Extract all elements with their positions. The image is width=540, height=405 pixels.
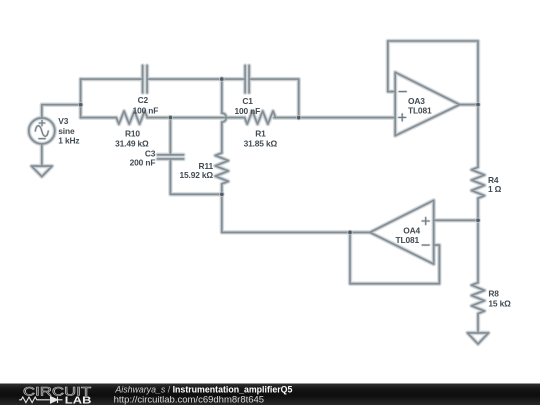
svg-text:R8: R8: [488, 289, 499, 299]
svg-text:R10: R10: [125, 128, 140, 138]
svg-text:C2: C2: [138, 95, 149, 105]
node dot V3 branch: [78, 102, 83, 107]
svg-text:TL081: TL081: [396, 235, 420, 245]
node dot R1/C1/OA3+: [296, 115, 301, 120]
svg-text:C1: C1: [242, 96, 253, 106]
label V3 value: [58, 116, 79, 146]
svg-text:31.85 kΩ: 31.85 kΩ: [244, 139, 278, 149]
svg-text:V3: V3: [58, 116, 68, 126]
svg-text:31.49 kΩ: 31.49 kΩ: [115, 139, 149, 149]
label R8 value: [488, 289, 511, 309]
label OA4: [396, 225, 421, 245]
label C1 value: [234, 96, 260, 116]
label R11 value: [180, 161, 214, 180]
svg-text:R1: R1: [255, 129, 266, 139]
svg-text:1 kHz: 1 kHz: [58, 136, 79, 146]
svg-text:OA4: OA4: [403, 225, 420, 235]
svg-text:TL081: TL081: [408, 106, 432, 116]
node dot R4/R8/OA4+: [475, 218, 480, 223]
svg-text:15 kΩ: 15 kΩ: [488, 298, 511, 308]
svg-text:100 nF: 100 nF: [133, 105, 159, 115]
svg-text:LAB: LAB: [65, 395, 92, 405]
logo resistor zigzag and diode: [19, 397, 62, 403]
svg-text:1 Ω: 1 Ω: [488, 184, 502, 194]
schematic wiring soft layers: [29, 41, 489, 344]
node dot OA4 output: [347, 230, 352, 235]
svg-text:100 nF: 100 nF: [234, 106, 260, 116]
node dot OA3 output: [475, 102, 480, 107]
label R10 value: [115, 128, 149, 148]
svg-text:Aishwarya_s / Instrumentation_: Aishwarya_s / Instrumentation_amplifierQ…: [114, 384, 292, 394]
svg-text:200 nF: 200 nF: [130, 157, 156, 167]
svg-text:sine: sine: [58, 126, 75, 136]
node dot R10/C3: [168, 115, 173, 120]
node dot top net / R11 branch: [219, 76, 224, 81]
svg-text:15.92 kΩ: 15.92 kΩ: [180, 170, 214, 180]
label R4 value: [488, 175, 502, 194]
label C3 value: [130, 149, 156, 168]
label OA3: [408, 96, 432, 116]
label C2 value: [133, 95, 159, 115]
svg-text:OA3: OA3: [408, 96, 425, 106]
node dot C3/R11 bottom: [219, 192, 224, 197]
svg-text:http://circuitlab.com/c69dhm8r: http://circuitlab.com/c69dhm8r8t645: [114, 395, 265, 405]
label R1 value: [244, 129, 278, 149]
